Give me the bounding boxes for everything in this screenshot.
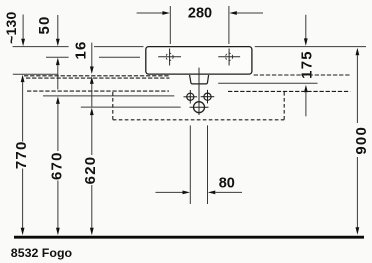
dim 50 arrow down [56,15,60,46]
svg-text:770: 770 [13,140,30,169]
supply hole C1 [184,90,198,104]
dim ~130 arrow [21,15,25,47]
dashed line right upper [254,74,351,76]
ledge line L3 [13,73,58,75]
tap hole 2 cross [218,49,240,66]
tap hole 1 cross [158,49,181,66]
svg-text:8532 Fogo: 8532 Fogo [11,246,73,260]
dim 16 arrow up [90,76,94,106]
dim 900 [356,48,360,235]
basin outline [146,47,252,75]
dashed box bottom [113,119,284,121]
dim 280 line left [137,11,170,15]
drain trapezoid [190,75,209,84]
svg-text:670: 670 [49,151,66,180]
extension line tap2 [228,6,230,44]
dim 770 [21,75,25,236]
rim line left B [94,46,144,48]
dim 620 [90,108,94,236]
line L4 [43,95,174,97]
rim line right [255,46,366,48]
rim line left A [13,46,69,48]
svg-text:80: 80 [219,176,235,192]
dashed line D2 [26,77,170,79]
shelf line L6 [218,82,317,84]
line L2 right segment [99,56,140,58]
svg-text:16: 16 [73,40,90,59]
dashed box left side [112,92,114,120]
dim 280 line right [229,11,263,15]
supply hole C2 [201,90,215,104]
floor line [14,236,364,239]
dim 175 arrow up [304,85,308,117]
svg-text:50: 50 [36,15,53,34]
line L5 [81,106,181,108]
extension line tap1 [169,6,171,44]
line L2 [46,56,69,58]
dim 80 extension line left [189,125,191,204]
svg-text:~130: ~130 [3,12,19,44]
drain center line [198,68,200,115]
dim 80 arrow left [156,191,191,195]
dim 16 arrow down [90,43,94,74]
dim 50 arrow up [56,58,60,90]
dim 80 extension line right [207,125,209,204]
dim 670 [56,96,60,235]
svg-text:620: 620 [82,156,99,185]
drain hole C3 [190,102,209,113]
dashed line right lower [228,90,350,92]
dashed line D3 left [27,90,169,92]
dim 80 arrow right [208,191,242,195]
dashed line D1 [24,75,170,77]
dashed box right side [283,92,285,120]
svg-text:900: 900 [353,126,370,155]
svg-text:280: 280 [188,6,212,22]
dim 175 arrow down [304,15,308,46]
